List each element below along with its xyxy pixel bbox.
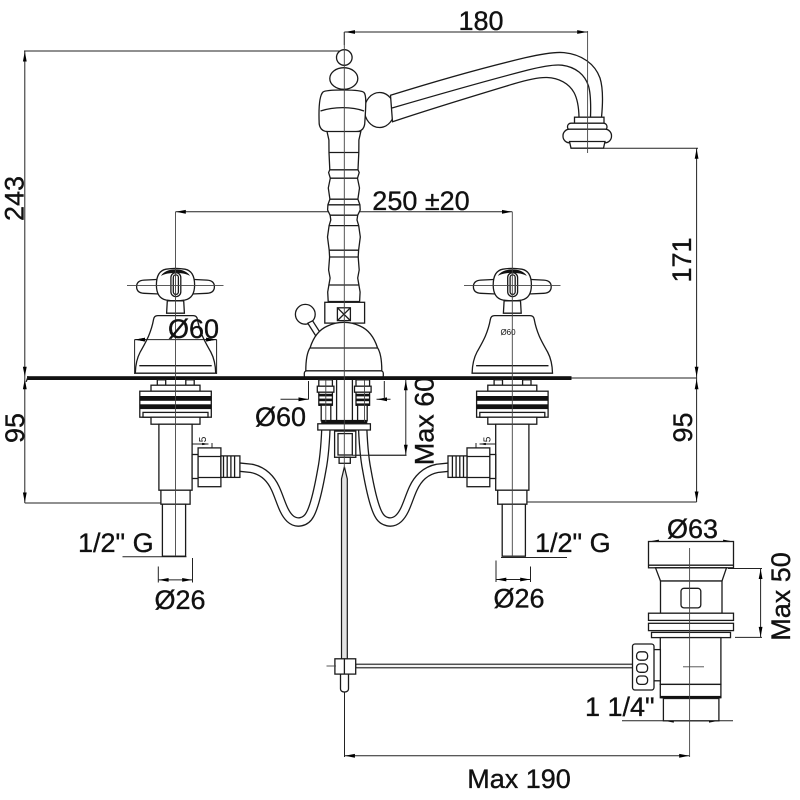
spout end collar [575,117,605,125]
dim 243 arrows [23,52,27,62]
rod junction block [335,659,356,674]
svg-text:Ø26: Ø26 [154,585,205,615]
spout aerator bulge [563,129,612,143]
rod lower stub [341,674,349,692]
svg-text:250 ±20: 250 ±20 [372,186,469,216]
left handle body [156,268,194,300]
drain knurled nut [647,650,660,681]
dim 180 extension tick [343,32,345,45]
deck left end face [26,376,28,382]
center base bell [306,322,382,378]
pop-up guide tab [339,457,350,463]
dim Max50 line [760,569,762,638]
leader 1/2G right [501,557,567,559]
center stud left [319,380,333,386]
dim 243/95 left vertical line [24,51,26,503]
svg-text:1 1/4": 1 1/4" [585,692,655,722]
dim 250 line [176,211,513,213]
svg-text:95: 95 [668,412,698,442]
left valve outlet hex nut [198,448,221,487]
left valve nut stack [140,391,212,417]
left handle bell [135,316,215,374]
svg-text:95: 95 [0,413,30,443]
dim 95 right extension line [527,501,697,503]
right valve tabs [494,380,502,385]
right valve washer [488,385,537,391]
drain overflow hole [681,588,701,608]
left valve washer [151,385,200,391]
center plate [318,424,371,430]
drain lower body [660,638,721,685]
dim Max60 extension line [352,454,407,456]
pop-up lever stick [308,321,323,339]
horizontal drain rod [356,664,633,668]
left hose [240,421,326,522]
right hose [362,421,448,522]
left valve body tube [159,424,192,490]
deck thin extension line right [572,377,698,379]
dim Max190 left extension line [344,692,346,757]
dim 180 line [344,31,587,33]
svg-text:1/2" G: 1/2" G [535,528,611,558]
right valve under-deck stack [448,380,548,556]
faucet centerline [343,32,345,468]
drain tailpipe [663,699,719,721]
center stud right [356,380,370,386]
svg-text:171: 171 [667,237,697,282]
dim O26 right [496,561,531,583]
drain inner centerline dash [683,666,704,668]
svg-text:5: 5 [483,436,494,442]
dim 95 left bottom extension line [25,502,162,504]
right valve outlet nipple [448,456,467,478]
dim 243 top extension line [24,50,344,52]
dim 5 left [191,443,212,449]
spout tip centerline [587,31,589,153]
svg-text:Ø60: Ø60 [168,314,219,344]
spout connector ball [365,93,395,128]
top finial small ball [337,50,353,66]
dim O60 left line [135,339,217,341]
drain centerline [689,548,691,757]
dim 95 left arrows [23,379,27,389]
dim O60 left line (over bell) [135,339,217,341]
center base skirt [304,371,383,378]
dim O60 left extension lines [135,340,217,374]
left valve outlet collar [192,455,198,479]
right valve outlet collar [490,455,496,479]
drain top flange [649,542,734,568]
dim Max50 extension lines [728,569,762,638]
center gasket [321,420,366,424]
svg-text:Max 60: Max 60 [410,377,440,466]
svg-text:Max 50: Max 50 [766,552,796,641]
left valve under-deck stack [140,380,240,556]
cross screw box [337,308,350,321]
right valve outlet hex nut [467,448,490,487]
svg-text:180: 180 [458,6,503,36]
drain body [661,581,723,613]
spout tip [570,142,606,149]
left valve threaded tail 1/2G [162,504,185,556]
right handle centerlines [464,212,561,556]
right handle assembly [472,268,552,373]
center inner pipes [337,380,353,421]
dim O60 center extension lines [309,381,385,400]
spout tube [391,52,603,121]
left valve outlet nipple [221,456,240,478]
center under-deck studs [317,380,371,464]
left handle arm right [192,279,214,294]
pop-up guide block [335,431,356,457]
leader 1/2G left [123,556,187,558]
right valve nut stack [477,391,548,417]
stud centerlines [326,380,365,422]
svg-text:5: 5 [198,436,209,442]
dim O63 line [649,541,734,543]
dim 171/95 right vertical line [696,148,698,502]
left handle stem [167,301,185,313]
dim 5 right [476,443,497,449]
drain ring 2 [649,623,734,630]
svg-text:Ø26: Ø26 [493,584,544,614]
left handle centerlines [127,212,224,556]
drain ring 3 [652,632,731,637]
left handle cap [161,269,190,276]
column ring lines [328,153,359,286]
svg-text:Ø60: Ø60 [255,402,306,432]
dim 171 top extension line [604,147,698,149]
head contour arc [321,108,365,111]
drain ring 1 [649,613,734,620]
finial ball 2 [330,68,358,90]
pop-up rod vertical [342,467,348,659]
svg-text:1/2" G: 1/2" G [78,528,154,558]
drain step [660,684,721,697]
drain rod centerline dashes [327,665,337,667]
column body [327,132,361,302]
dim Max60 extension line (over hose) [352,454,407,456]
dim O26 left [158,558,192,583]
svg-text:243: 243 [0,176,30,221]
right valve hex end [498,490,527,504]
left valve flange [151,417,200,424]
right valve body tube [496,424,529,490]
basin deck [27,376,572,380]
right valve threaded tail 1/2G [502,504,525,556]
left valve tabs [157,380,165,385]
left handle arm left [137,279,159,294]
valve collar [325,302,365,323]
pop-up lever knob [295,304,315,324]
dim Max60 line [405,380,407,455]
drain neck [656,568,727,581]
left valve hex end [161,490,190,504]
svg-text:Ø60: Ø60 [500,328,516,337]
spout end ring [568,123,608,130]
dim Max190 line [345,755,690,757]
svg-text:Max 190: Max 190 [467,764,571,794]
faucet head barrel [319,90,366,132]
dim O60 center tails [281,398,391,400]
dim 1 1/4 line [622,720,733,722]
spout tube middle contour [392,65,591,117]
right valve flange [488,417,537,424]
left handle slot [171,273,181,297]
svg-text:Ø63: Ø63 [667,514,718,544]
